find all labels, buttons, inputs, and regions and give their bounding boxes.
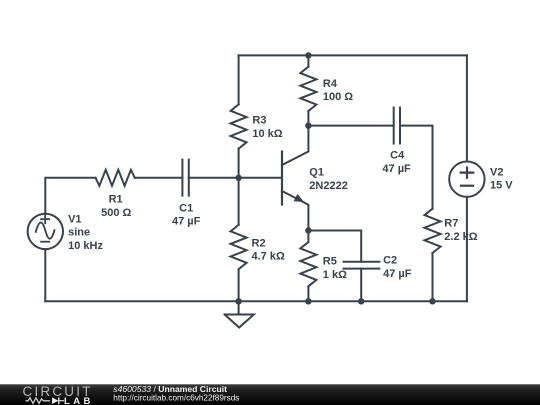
wire bottom rail (45, 300, 467, 302)
wire C2 to bottom rail (360, 269, 362, 302)
transistor Q1 base bar (281, 152, 283, 205)
svg-text:R2: R2 (252, 237, 266, 249)
resistor R4 (300, 55, 316, 125)
svg-text:V1: V1 (68, 213, 81, 225)
voltage source V2 plus (461, 168, 474, 178)
resistor R1 (96, 170, 135, 186)
svg-text:R3: R3 (252, 115, 266, 127)
resistor R2 (231, 178, 247, 301)
transistor Q1 collector (282, 126, 308, 165)
wire C4 to R7 corner (400, 126, 433, 209)
ground (225, 301, 254, 327)
svg-text:1 kΩ: 1 kΩ (323, 269, 347, 281)
wire V2 bottom (466, 197, 468, 301)
svg-text:500 Ω: 500 Ω (101, 207, 131, 219)
svg-text:sine: sine (68, 227, 90, 239)
voltage source V1 sine (36, 223, 55, 239)
CircuitLab logo diode (52, 397, 59, 404)
voltage source V1 plus (41, 215, 49, 223)
capacitor C4 (394, 108, 400, 144)
wire C1 to node A (189, 177, 239, 179)
capacitor C1 (182, 160, 188, 196)
R7 bottom junction dot (429, 298, 435, 304)
resistor R3 (231, 104, 247, 148)
top rail junction dot (305, 52, 311, 58)
svg-text:47 µF: 47 µF (383, 268, 412, 280)
wire top rail (239, 54, 467, 56)
resistor R7 (425, 209, 441, 302)
wire top-left corner to R3 (238, 55, 240, 177)
C2 bottom junction dot (358, 298, 364, 304)
wire left column top (V1 to R1 row) (45, 178, 95, 214)
wire R1 to C1 (135, 177, 183, 179)
svg-text:47 µF: 47 µF (172, 216, 201, 228)
voltage source V2 minus (461, 185, 473, 187)
svg-text:R7: R7 (444, 218, 458, 230)
svg-text:10 kΩ: 10 kΩ (252, 128, 282, 140)
svg-text:C4: C4 (390, 150, 405, 162)
voltage source V1 minus (41, 241, 49, 243)
voltage source V1 circle (28, 214, 63, 249)
svg-text:100 Ω: 100 Ω (323, 91, 353, 103)
emitter node junction dot (305, 227, 311, 233)
svg-text:15 V: 15 V (490, 180, 513, 192)
svg-text:R4: R4 (323, 78, 338, 90)
transistor Q1 emitter (282, 191, 308, 231)
node A junction dot (235, 175, 241, 181)
capacitor C2 (344, 262, 380, 269)
svg-text:10 kHz: 10 kHz (68, 240, 103, 252)
wire V2 top (466, 55, 468, 161)
R5 bottom junction dot (305, 298, 311, 304)
wire emitter node to C2 (308, 231, 361, 262)
svg-text:47 µF: 47 µF (382, 163, 411, 175)
svg-text:Q1: Q1 (309, 167, 324, 179)
svg-text:LAB: LAB (64, 396, 94, 405)
wire collector node to C4 (308, 125, 393, 127)
wire node A to base (239, 177, 281, 179)
svg-text:V2: V2 (490, 166, 503, 178)
svg-text:http://circuitlab.com/c6vh22f8: http://circuitlab.com/c6vh22f89rsds (113, 394, 239, 403)
svg-text:C1: C1 (179, 202, 193, 214)
svg-text:R5: R5 (323, 256, 337, 268)
collector node junction dot (305, 123, 311, 129)
resistor R5 (300, 231, 316, 302)
voltage source V2 circle (449, 162, 484, 197)
transistor Q1 emitter arrow (294, 194, 304, 202)
svg-text:s4600533 / Unnamed Circuit: s4600533 / Unnamed Circuit (113, 384, 227, 394)
wire V1 bottom (44, 249, 46, 301)
svg-text:2N2222: 2N2222 (309, 180, 348, 192)
CircuitLab logo resistor squiggle (26, 398, 51, 404)
svg-text:2.2 kΩ: 2.2 kΩ (444, 231, 477, 243)
svg-text:4.7 kΩ: 4.7 kΩ (252, 251, 285, 263)
svg-text:C2: C2 (383, 255, 397, 267)
svg-text:R1: R1 (109, 194, 123, 206)
ground node junction dot (235, 298, 241, 304)
